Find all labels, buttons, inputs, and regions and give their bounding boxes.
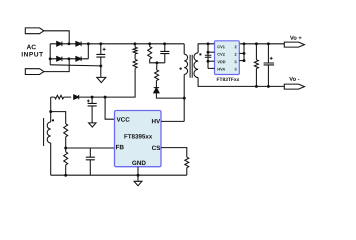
node startup tap <box>133 42 136 45</box>
wire U2 right pin2 stub <box>239 52 244 54</box>
resistor R4 clamp series <box>155 70 159 81</box>
resistor R1 startup upper <box>133 47 137 54</box>
wire U2 pin4 stub <box>208 67 215 69</box>
diode D1 bridge <box>57 42 62 47</box>
node clamp R tap <box>148 42 151 45</box>
wire primary bottom to drain <box>183 74 185 121</box>
node VCC pin tap <box>104 96 107 99</box>
resistor R6 FB upper <box>64 124 68 137</box>
connector J1 AC line input <box>25 28 44 34</box>
node R9 bottom <box>255 85 258 88</box>
wire bus to primary top <box>183 44 185 54</box>
transformer T1 primary winding <box>184 54 187 74</box>
wire R3 to clamp node <box>150 44 165 63</box>
wire FB node to pin <box>66 147 115 149</box>
wire bridge bottom row <box>50 58 88 60</box>
node U2 pin1 left <box>207 42 210 45</box>
ic U2 FT83TFxx <box>215 41 240 75</box>
resistor R7 FB lower <box>64 152 68 165</box>
capacitor C5 VDD bypass <box>205 55 212 57</box>
wire U2 right pin3 stub <box>239 60 244 62</box>
wire R9 leads <box>255 44 257 87</box>
node drain junction <box>183 97 186 100</box>
ground primary bulk <box>97 77 106 82</box>
polarity dot T1 aux <box>52 119 54 121</box>
wire HV pin to drain <box>161 120 184 122</box>
resistor R8 CS sense <box>185 157 189 168</box>
label Vo- <box>289 77 299 81</box>
wire VCC tap to pin <box>105 97 114 119</box>
polarity dot T1 primary <box>179 67 181 69</box>
label U2 FT83TFxx <box>217 78 240 81</box>
diode D6 aux rectifier <box>74 95 79 99</box>
capacitor C6 output + <box>267 44 269 63</box>
wire J2 to bridge bottom mid <box>44 59 69 72</box>
node clamp C tap <box>163 42 166 45</box>
wire aux row to winding <box>50 97 52 122</box>
capacitor C3 VCC + <box>91 97 93 103</box>
node bridge bottom mid <box>67 57 70 60</box>
wire clamp node to R4 <box>156 63 158 70</box>
wire secondary bottom to rail <box>198 78 284 87</box>
wire startup chain <box>105 44 135 97</box>
ground main GND <box>134 181 142 185</box>
transformer T1 core <box>190 55 192 78</box>
node U2 right pin2 <box>243 52 246 55</box>
node U2 pin2 <box>207 51 210 54</box>
diode D4 bridge <box>76 57 81 62</box>
node C1 top <box>99 42 102 45</box>
node C1 return <box>99 64 102 67</box>
wire U2 right pin column <box>243 44 245 61</box>
node U2 right pin3 <box>243 59 246 62</box>
wire secondary top to bus <box>198 44 214 53</box>
wire DC+ bus <box>88 43 184 45</box>
wire U2 pin2 stub <box>208 51 215 53</box>
wire U2 pin3 stub <box>208 60 215 62</box>
wire J1 to bridge top mid <box>44 31 69 44</box>
label AC INPUT <box>27 45 36 50</box>
wire GND pin stub <box>137 167 139 182</box>
ic U1 FT8395xx <box>115 111 162 167</box>
resistor R3 clamp <box>148 47 152 59</box>
polarity dot T1 secondary <box>199 53 201 55</box>
wire R7 to gnd rail <box>65 165 67 175</box>
wire DC return diagonal <box>50 65 101 66</box>
wire aux tap to R6 <box>51 112 66 124</box>
capacitor C1 bulk + <box>100 44 102 55</box>
node U2 pin3 <box>207 60 210 63</box>
ground VCC cap <box>89 123 96 127</box>
wire bridge top row <box>50 43 88 45</box>
capacitor C2 clamp <box>164 44 166 52</box>
wire D5 to drain node <box>156 93 184 98</box>
transformer T1 aux winding <box>47 122 51 143</box>
node FB <box>64 147 67 150</box>
resistor R5 aux series <box>55 95 64 99</box>
resistor R2 startup lower <box>133 59 137 68</box>
capacitor C4 FB <box>89 148 91 157</box>
wire secondary DC bus <box>239 43 284 45</box>
wire aux winding to gnd rail <box>50 143 52 175</box>
node GND pin rail <box>137 174 140 177</box>
wire primary ground rail <box>51 174 187 176</box>
node VCC cap tap <box>91 96 94 99</box>
wire bridge left side <box>49 44 51 65</box>
diode D5 clamp <box>154 88 159 93</box>
diode D3 bridge <box>57 57 62 62</box>
wire bridge right side <box>87 44 89 59</box>
node R9 top <box>255 42 258 45</box>
node bridge top mid <box>67 42 70 45</box>
node R7 gnd <box>64 174 67 177</box>
wire aux row <box>51 96 105 98</box>
connector J3 Vo+ <box>284 42 304 47</box>
node C6 top <box>267 42 270 45</box>
transformer T1 secondary winding <box>194 53 198 78</box>
diode D2 bridge <box>76 42 81 47</box>
wire U2 left pin column <box>207 44 209 69</box>
wire CS pin to R8 <box>161 148 187 158</box>
transformer T1 aux core <box>43 118 45 146</box>
connector J2 AC neutral input <box>25 69 44 75</box>
label Vo+ <box>290 36 302 40</box>
node bridge DC+ out <box>87 42 90 45</box>
node aux divider tap <box>49 110 52 113</box>
connector J4 Vo- <box>284 84 304 89</box>
node U2 right pin1 <box>243 42 246 45</box>
node bridge bottom left <box>49 57 52 60</box>
resistor R9 preload <box>254 60 258 69</box>
wire R8 to gnd rail <box>186 168 188 176</box>
node C6 bottom <box>267 85 270 88</box>
wire R6 to FB node <box>65 137 67 152</box>
node clamp junction <box>155 61 158 64</box>
